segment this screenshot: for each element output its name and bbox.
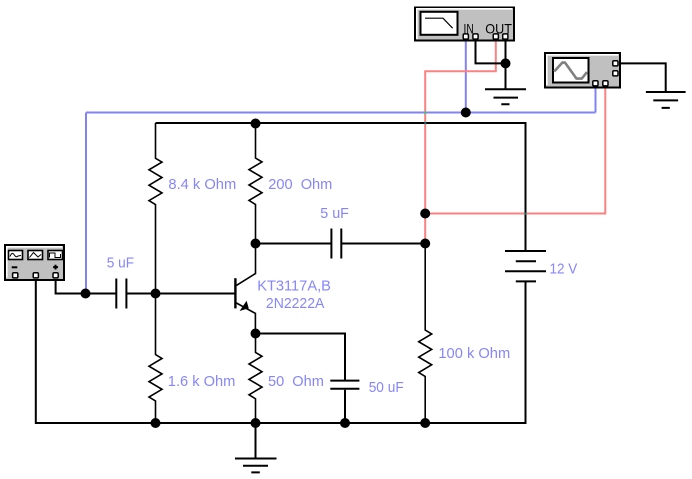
wire: red net from Bode OUT to output node and scope B [425,39,605,244]
node dot B base divider [151,289,161,299]
wire: C3 bottom to rail [344,390,346,423]
node dot emitter [251,329,261,339]
svg-text:1.6 k Ohm: 1.6 k Ohm [168,373,236,390]
svg-text:12 V: 12 V [550,261,578,278]
resistor R4 50 Ohm [249,334,262,424]
svg-text:KT3117A,B: KT3117A,B [257,277,331,294]
wire: node B to base [156,293,236,295]
capacitor C2 5uF [331,229,341,259]
node dot blue junction [461,108,471,118]
scope terminal ground [613,61,618,66]
scope terminal trigger [613,71,618,76]
node dot rail C3 [340,418,350,428]
scope terminal B [603,81,608,86]
ground below emitter resistor [235,423,277,472]
node dot collector [251,239,261,249]
ground right of oscilloscope [646,92,686,108]
wire crossing artifact red-battery [525,213,527,215]
wire: bottom rail [36,277,526,423]
ground below Bode OUT node [485,89,526,104]
bode terminal IN- [473,34,478,39]
svg-text:5 uF: 5 uF [107,255,134,272]
svg-text:200 Ohm: 200 Ohm [268,176,332,193]
FG terminal minus [13,273,18,278]
bode terminal OUT- [503,34,508,39]
FG terminal common [33,273,38,278]
resistor R3 1.6k [149,294,162,424]
wire: Bode IN- to ground node [476,39,506,89]
node dot top rail R2 [251,119,261,129]
node dot A input [81,289,91,299]
FG terminal plus [53,273,58,278]
wire: C1 to node B [126,293,155,295]
oscilloscope U2 body [545,53,620,88]
wire: top rail VCC [156,123,526,251]
wire: emitter node to C3 top [256,334,346,381]
node dot rail R5 [420,418,430,428]
node dot rail R3 [151,418,161,428]
wire: FG plus terminal to node A [56,277,86,294]
bode plotter U1 body [415,8,514,41]
function generator U3 body [5,245,64,280]
svg-text:100 k Ohm: 100 k Ohm [438,345,510,362]
resistor R1 8.4k [149,123,162,294]
wire: scope ground lead [615,63,665,92]
resistor R5 100k [419,244,432,424]
battery V1 12V [505,251,546,281]
svg-text:2N2222A: 2N2222A [266,295,325,312]
wire: blue net from Bode IN to FG+ node and scope A [86,39,596,294]
capacitor C1 5uF [116,279,126,309]
node dot output [420,239,430,249]
node dot output red [420,209,430,219]
bode terminal IN+ [463,34,468,39]
wire crossing artifact red-blue [424,112,426,114]
bode terminal OUT+ [493,34,498,39]
wire: C2 to output node [341,243,425,245]
svg-text:8.4 k Ohm: 8.4 k Ohm [168,176,236,193]
node dot rail R4 [251,418,261,428]
wire: node A to C1 [86,293,116,295]
node dot bode ground [501,58,511,68]
transistor Q1 2N2222A [235,244,255,334]
wire: collector node to C2 [256,243,332,245]
svg-text:5 uF: 5 uF [320,205,349,222]
svg-text:50 uF: 50 uF [369,379,404,396]
wire crossing artifact red-rail [424,122,426,124]
svg-text:50 Ohm: 50 Ohm [268,373,324,390]
resistor R2 200 Ohm [249,124,262,244]
scope terminal A [593,81,598,86]
capacitor C3 50uF [330,381,359,389]
